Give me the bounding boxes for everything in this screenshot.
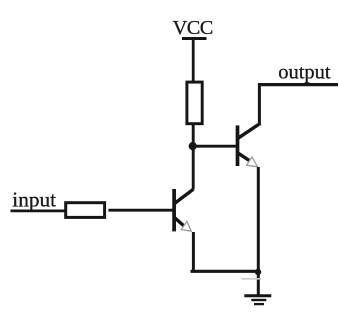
transistor Q1 emitter arrow (open): [181, 221, 191, 231]
wire output horizontal: [258, 83, 338, 86]
wire input lead: [11, 209, 66, 212]
svg-text:VCC: VCC: [173, 17, 213, 39]
wire VCC bar to R1: [192, 39, 195, 82]
transistor Q2 emitter arrow (open): [247, 157, 258, 167]
resistor R2: [66, 203, 105, 218]
wire R1 to Q1 collector (through node A): [192, 124, 195, 190]
transistor Q1 emitter stroke: [174, 217, 184, 226]
wire R2 to Q1 base: [108, 209, 172, 212]
stray faint scan mark near ground: [242, 278, 262, 280]
transistor Q1 collector stroke: [174, 189, 193, 203]
svg-text:output: output: [278, 62, 331, 84]
ground symbol: [244, 296, 271, 304]
svg-text:input: input: [12, 187, 56, 211]
transistor Q2 emitter stroke: [238, 153, 250, 161]
wire Q2 collector to output corner: [258, 83, 261, 126]
junction blob at ground corner: [255, 269, 261, 275]
wire node A to Q2 base: [193, 145, 236, 148]
wire Q2 emitter down to ground: [257, 167, 260, 296]
transistor Q1 base bar: [172, 189, 176, 231]
wire Q1 emitter down: [192, 232, 195, 271]
transistor Q2 collector stroke: [238, 125, 259, 139]
node A junction dot: [189, 142, 197, 150]
transistor Q2 base bar: [236, 125, 240, 166]
wire Q1 emitter to ground node (horizontal): [191, 270, 259, 273]
VCC power rail bar: [182, 37, 207, 40]
resistor R1: [187, 82, 202, 124]
